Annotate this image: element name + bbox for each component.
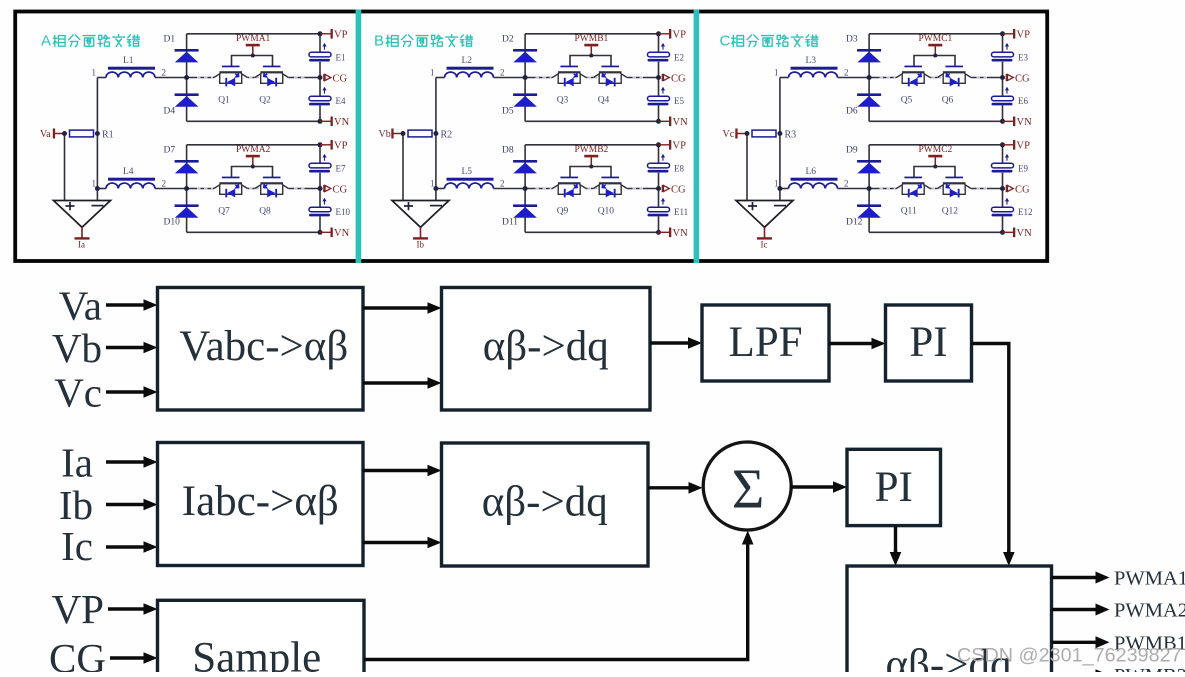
svg-text:1: 1	[92, 67, 97, 77]
svg-text:Ib: Ib	[417, 240, 425, 250]
wire: PI down to modulator	[894, 526, 897, 554]
transistor Q3 (IGBT with antiparallel diode)	[552, 66, 586, 106]
svg-text:Q10: Q10	[598, 207, 615, 217]
svg-text:Q1: Q1	[218, 96, 230, 106]
wire: node1 to inductor bottom leg	[436, 188, 445, 190]
junction VP rail	[318, 142, 323, 147]
resistor R1	[70, 129, 114, 140]
junction CG node	[1000, 186, 1005, 191]
wire: node1 to inductor top leg	[436, 77, 445, 79]
svg-text:CG: CG	[1015, 184, 1030, 195]
power port VP	[659, 140, 687, 151]
op-amp current sense amplifier (phase B)	[392, 201, 449, 228]
transistor Q4 (IGBT with antiparallel diode)	[593, 66, 627, 106]
junction at resistor left	[401, 131, 406, 136]
svg-text:Q9: Q9	[557, 207, 569, 217]
capacitor E6	[992, 87, 1029, 106]
block modulator alphabeta->dq (PWM generator)	[847, 566, 1052, 677]
PWM gate port PWMC2	[919, 145, 953, 167]
junction gate rail	[251, 54, 255, 58]
wire: VP arrow	[108, 607, 146, 610]
svg-text:CG: CG	[671, 184, 686, 195]
svg-text:2: 2	[844, 178, 849, 188]
svg-text:PWMB2: PWMB2	[575, 145, 609, 155]
wire: bottom rail to VN	[187, 120, 320, 122]
svg-text:PI: PI	[875, 464, 913, 511]
wire: gate rail	[570, 167, 611, 178]
svg-text:E5: E5	[674, 96, 684, 106]
wire: gate rail	[232, 167, 273, 178]
power port CG	[1006, 184, 1030, 195]
svg-text:PWMC2: PWMC2	[919, 145, 953, 155]
wire: Va arrow	[106, 303, 146, 306]
svg-text:PWMA1: PWMA1	[1114, 568, 1185, 590]
svg-text:Vc: Vc	[54, 369, 102, 415]
junction CG node	[1000, 75, 1005, 80]
power port CG	[323, 73, 347, 84]
svg-text:L1: L1	[123, 56, 134, 66]
capacitor E7	[309, 154, 346, 173]
junction node 2	[523, 75, 528, 80]
svg-text:D4: D4	[164, 107, 176, 117]
wire: bottom rail to VN	[187, 231, 320, 233]
wire: inductor output node 2 horizontal run	[838, 188, 1003, 190]
svg-text:E8: E8	[674, 163, 684, 173]
power port CG	[323, 184, 347, 195]
wire: faint dashed highlight segments	[880, 77, 988, 79]
PWM gate port PWMB2	[575, 145, 609, 167]
wire: node1 to inductor top leg	[780, 77, 789, 79]
transistor Q6 (IGBT with antiparallel diode)	[937, 66, 971, 106]
wire: inductor output node 2 horizontal run	[155, 77, 320, 79]
transistor Q8 (IGBT with antiparallel diode)	[255, 177, 289, 217]
wire: gate rail	[914, 167, 955, 178]
wire: inductor output node 2 horizontal run	[155, 188, 320, 190]
capacitor E11	[648, 198, 689, 217]
wire: diode column vertical	[524, 145, 526, 233]
wire: faint dashed highlight segments	[197, 188, 305, 190]
svg-text:2: 2	[500, 178, 505, 188]
wire: sense node vertical (L node 1 column)	[435, 78, 437, 201]
resistor R3	[752, 129, 796, 140]
capacitor E2	[648, 43, 685, 62]
svg-text:VP: VP	[1017, 29, 1031, 40]
junction node 2	[867, 186, 872, 191]
svg-text:VP: VP	[673, 29, 687, 40]
port Ic (current sense output)	[757, 227, 772, 249]
power port VN	[1003, 228, 1033, 239]
power port CG	[1006, 73, 1030, 84]
svg-text:E3: E3	[1018, 52, 1028, 62]
diode D7	[164, 146, 199, 174]
svg-text:Q6: Q6	[942, 96, 954, 106]
svg-text:R1: R1	[102, 129, 114, 140]
wire: faint dashed highlight segments	[197, 77, 305, 79]
svg-text:D6: D6	[846, 107, 858, 117]
wire: bottom rail to VN	[869, 231, 1002, 233]
PWM gate port PWMA1	[236, 34, 271, 56]
svg-text:A: A	[41, 33, 51, 50]
inductor L5	[445, 167, 494, 188]
power port CG	[662, 73, 686, 84]
block Iabc->alphabeta	[158, 443, 364, 566]
junction VN rail	[656, 230, 661, 235]
wire: top rail to VP	[187, 144, 320, 146]
inductor L1	[106, 56, 155, 77]
net label: C相分两路交错 (phase C two-way interleaved)	[720, 33, 818, 50]
svg-text:B: B	[374, 33, 384, 50]
inductor L6	[789, 167, 838, 188]
svg-text:R3: R3	[785, 129, 797, 140]
wire: PWMA1 output arrow	[1052, 576, 1099, 579]
wire: inductor output node 2 horizontal run	[494, 77, 659, 79]
wire: Ic arrow	[106, 545, 146, 548]
wire: right rail segments between capacitors	[1002, 34, 1004, 122]
net label: A相分两路交错 (phase A two-way interleaved)	[41, 33, 139, 50]
wire: Vdq to LPF arrow	[650, 341, 690, 344]
summing junction Σ	[703, 442, 791, 530]
wire: diode column vertical	[868, 34, 870, 122]
wire: Vbeta arrow	[363, 381, 430, 384]
svg-text:PWMB1: PWMB1	[575, 34, 609, 44]
junction VN rail	[1000, 119, 1005, 124]
svg-text:E2: E2	[674, 52, 684, 62]
junction VN rail	[318, 230, 323, 235]
svg-text:CG: CG	[1015, 73, 1030, 84]
capacitor E8	[648, 154, 685, 173]
diode D4	[164, 93, 199, 116]
svg-text:Σ: Σ	[732, 459, 765, 521]
wire: Vc node to op-amp plus input	[746, 134, 748, 201]
wire: right rail segments between capacitors	[658, 34, 660, 122]
resistor R2	[408, 129, 452, 140]
svg-text:VN: VN	[334, 228, 350, 239]
block LPF	[702, 305, 829, 381]
wire: Valpha arrow	[363, 306, 430, 309]
transistor Q11 (IGBT with antiparallel diode)	[896, 177, 930, 217]
svg-text:Ia: Ia	[61, 439, 93, 485]
svg-text:L2: L2	[462, 56, 473, 66]
svg-text:L5: L5	[462, 167, 473, 177]
power port VP	[320, 29, 348, 40]
svg-text:Q12: Q12	[942, 207, 959, 217]
transistor Q9 (IGBT with antiparallel diode)	[552, 177, 586, 217]
svg-text:VP: VP	[673, 140, 687, 151]
wire: right rail segments between capacitors	[658, 145, 660, 233]
junction VP rail	[656, 142, 661, 147]
svg-text:VN: VN	[1017, 228, 1033, 239]
wire: diode column vertical	[868, 145, 870, 233]
transistor Q2 (IGBT with antiparallel diode)	[255, 66, 289, 106]
svg-text:D8: D8	[502, 146, 514, 156]
svg-text:LPF: LPF	[728, 319, 802, 366]
wire: PWMB1 output arrow	[1052, 641, 1099, 644]
junction at inductor L6 node 1	[777, 186, 782, 191]
svg-text:2: 2	[162, 67, 167, 77]
svg-text:1: 1	[92, 178, 97, 188]
junction CG node	[318, 75, 323, 80]
capacitor E1	[309, 43, 346, 62]
svg-text:VN: VN	[673, 228, 689, 239]
svg-text:L4: L4	[123, 167, 134, 177]
diode D11	[502, 204, 537, 227]
svg-text:Va: Va	[59, 282, 102, 328]
junction node 2	[184, 186, 189, 191]
wire: faint dashed highlight segments	[536, 77, 644, 79]
capacitor E10	[309, 198, 350, 217]
svg-text:Ic: Ic	[761, 240, 768, 250]
svg-text:D2: D2	[502, 35, 514, 45]
svg-text:Q5: Q5	[901, 96, 913, 106]
power port CG	[662, 184, 686, 195]
svg-text:2: 2	[844, 67, 849, 77]
block PI (voltage loop)	[886, 305, 972, 381]
svg-text:Q7: Q7	[218, 207, 230, 217]
wire: top rail to VP	[187, 33, 320, 35]
svg-text:C: C	[720, 33, 731, 50]
svg-text:E10: E10	[336, 207, 351, 217]
svg-text:1: 1	[774, 67, 779, 77]
wire: Vb node to op-amp plus input	[402, 134, 404, 201]
transistor Q7 (IGBT with antiparallel diode)	[214, 177, 248, 217]
power port VP	[659, 29, 687, 40]
inductor L2	[445, 56, 494, 77]
wire: PWMA2 output arrow	[1052, 608, 1099, 611]
op-amp current sense amplifier (phase A)	[54, 201, 111, 228]
junction at inductor L5 node 1	[433, 186, 438, 191]
svg-text:D5: D5	[502, 107, 514, 117]
diode D10	[164, 204, 199, 227]
diode D6	[846, 93, 881, 116]
svg-text:Va: Va	[40, 129, 51, 140]
block PI (current loop)	[847, 449, 941, 525]
svg-text:CG: CG	[49, 635, 106, 672]
svg-text:D10: D10	[164, 218, 181, 228]
wire: CG arrow	[110, 656, 146, 659]
junction node 2	[523, 186, 528, 191]
block voltage alphabeta->dq	[442, 288, 651, 411]
power port VN	[320, 228, 350, 239]
wire: top rail to VP	[869, 33, 1002, 35]
svg-text:1: 1	[430, 178, 435, 188]
wire: Idq to summer arrow	[648, 486, 691, 489]
wire: inductor output node 2 horizontal run	[494, 188, 659, 190]
svg-text:D11: D11	[502, 218, 518, 228]
wire: sense node vertical (L node 1 column)	[779, 78, 781, 201]
svg-text:D7: D7	[164, 146, 176, 156]
net label: B相分两路交错 (phase B two-way interleaved)	[374, 33, 472, 50]
svg-text:Vb: Vb	[52, 325, 102, 371]
capacitor E4	[309, 87, 346, 106]
wire: bottom rail to VN	[869, 120, 1002, 122]
svg-text:Q4: Q4	[598, 96, 610, 106]
capacitor E12	[992, 198, 1033, 217]
svg-text:E9: E9	[1018, 163, 1028, 173]
svg-text:L6: L6	[806, 167, 817, 177]
svg-text:L3: L3	[806, 56, 817, 66]
wire: Ia arrow	[106, 460, 146, 463]
power port VN	[1003, 117, 1033, 128]
block Vabc->alphabeta	[158, 288, 364, 411]
wire: diode column vertical	[186, 145, 188, 233]
wire: Ibeta arrow	[363, 541, 430, 544]
wire: inductor output node 2 horizontal run	[838, 77, 1003, 79]
PWM gate port PWMB1	[575, 34, 609, 56]
svg-text:Ib: Ib	[59, 482, 93, 528]
op-amp current sense amplifier (phase C)	[736, 201, 793, 228]
wire: diode column vertical	[186, 34, 188, 122]
svg-text:VP: VP	[52, 586, 104, 632]
wire: gate rail	[914, 56, 955, 67]
wire: Vc arrow	[106, 390, 146, 393]
svg-text:R2: R2	[441, 129, 453, 140]
junction VP rail	[656, 31, 661, 36]
svg-text:CG: CG	[333, 184, 348, 195]
phase separator line B/C	[694, 10, 700, 263]
svg-text:E1: E1	[336, 52, 346, 62]
svg-text:CG: CG	[671, 73, 686, 84]
port Ia (current sense output)	[75, 227, 90, 249]
svg-text:PWMA1: PWMA1	[236, 34, 271, 44]
wire: gate rail	[570, 56, 611, 67]
junction gate rail	[589, 54, 593, 58]
capacitor E9	[992, 154, 1029, 173]
wire: right rail segments between capacitors	[319, 145, 321, 233]
junction at resistor right	[777, 131, 782, 136]
junction at resistor left	[745, 131, 750, 136]
junction gate rail	[589, 165, 593, 169]
svg-text:D1: D1	[164, 35, 176, 45]
junction gate rail	[933, 165, 937, 169]
junction gate rail	[251, 165, 255, 169]
junction CG node	[656, 186, 661, 191]
svg-text:E4: E4	[336, 96, 346, 106]
svg-text:VP: VP	[1017, 140, 1031, 151]
svg-text:E11: E11	[674, 207, 688, 217]
svg-text:2: 2	[500, 67, 505, 77]
schematic outer border frame	[15, 12, 1047, 262]
wire: faint dashed highlight segments	[880, 188, 988, 190]
wire: Va node to op-amp plus input	[64, 134, 66, 201]
svg-text:VP: VP	[334, 29, 348, 40]
junction at resistor right	[433, 131, 438, 136]
svg-text:D12: D12	[846, 218, 863, 228]
wire: PWMB2 output arrow	[1052, 674, 1099, 677]
wire: PI output right-then-down to modulator	[972, 344, 1009, 555]
wire: node1 to inductor top leg	[97, 77, 106, 79]
diode D9	[846, 146, 881, 174]
wire: Ialpha arrow	[363, 469, 430, 472]
svg-text:Iabc->αβ: Iabc->αβ	[182, 478, 339, 525]
block Sample	[158, 600, 365, 677]
wire: node1 to inductor bottom leg	[780, 188, 789, 190]
diode D5	[502, 93, 537, 116]
diode D3	[846, 35, 881, 63]
transistor Q1 (IGBT with antiparallel diode)	[214, 66, 248, 106]
svg-text:2: 2	[162, 178, 167, 188]
svg-text:CSDN @2301_76239827: CSDN @2301_76239827	[957, 645, 1182, 667]
svg-text:PWMC1: PWMC1	[919, 34, 953, 44]
svg-text:D3: D3	[846, 35, 858, 45]
svg-text:VN: VN	[673, 117, 689, 128]
power port VP	[1003, 29, 1031, 40]
transistor Q5 (IGBT with antiparallel diode)	[896, 66, 930, 106]
inductor L3	[789, 56, 838, 77]
svg-text:αβ->dq: αβ->dq	[483, 323, 609, 370]
wire: LPF to PI arrow	[829, 342, 874, 345]
svg-text:Vabc->αβ: Vabc->αβ	[179, 323, 348, 370]
svg-text:VP: VP	[334, 140, 348, 151]
svg-text:Vb: Vb	[379, 129, 391, 140]
power port VP	[320, 140, 348, 151]
junction CG node	[656, 75, 661, 80]
svg-text:PWMA2: PWMA2	[1114, 600, 1185, 622]
wire: bottom rail to VN	[525, 120, 658, 122]
svg-text:1: 1	[774, 178, 779, 188]
wire: gate rail	[232, 56, 273, 67]
junction VP rail	[1000, 142, 1005, 147]
power port VP	[1003, 140, 1031, 151]
svg-text:Sample: Sample	[192, 635, 321, 673]
port Va (phase voltage input)	[40, 129, 65, 141]
transistor Q12 (IGBT with antiparallel diode)	[937, 177, 971, 217]
wire: faint dashed highlight segments	[536, 188, 644, 190]
svg-text:αβ->dq: αβ->dq	[482, 479, 608, 526]
transistor Q10 (IGBT with antiparallel diode)	[593, 177, 627, 217]
junction at resistor left	[62, 131, 67, 136]
wire: Vb arrow	[106, 346, 146, 349]
junction VN rail	[656, 119, 661, 124]
junction VP rail	[318, 31, 323, 36]
junction at resistor right	[95, 131, 100, 136]
diode D2	[502, 35, 537, 63]
block current alphabeta->dq	[442, 443, 649, 566]
wire: node1 to inductor bottom leg	[97, 188, 106, 190]
svg-text:CG: CG	[333, 73, 348, 84]
svg-text:VN: VN	[334, 117, 350, 128]
wire: top rail to VP	[869, 144, 1002, 146]
wire: top rail to VP	[525, 144, 658, 146]
junction VN rail	[318, 119, 323, 124]
inductor L4	[106, 167, 155, 188]
svg-text:1: 1	[430, 67, 435, 77]
phase separator line A/B	[356, 10, 362, 263]
capacitor E3	[992, 43, 1029, 62]
junction at inductor L4 node 1	[95, 186, 100, 191]
wire: top rail to VP	[525, 33, 658, 35]
port Ib (current sense output)	[413, 227, 428, 249]
wire: bottom rail to VN	[525, 231, 658, 233]
junction CG node	[318, 186, 323, 191]
diode D1	[164, 35, 199, 63]
svg-text:Q8: Q8	[259, 207, 271, 217]
port Vc (phase voltage input)	[723, 129, 748, 141]
junction VN rail	[1000, 230, 1005, 235]
svg-text:PI: PI	[909, 319, 947, 366]
junction node 2	[184, 75, 189, 80]
wire: diode column vertical	[524, 34, 526, 122]
wire: Sample output to summer (up arrow)	[364, 536, 748, 660]
svg-text:VN: VN	[1017, 117, 1033, 128]
wire: summer to PI arrow	[790, 485, 835, 488]
junction gate rail	[933, 54, 937, 58]
junction VP rail	[1000, 31, 1005, 36]
PWM gate port PWMC1	[919, 34, 953, 56]
PWM gate port PWMA2	[236, 145, 271, 167]
diode D8	[502, 146, 537, 174]
svg-text:Ic: Ic	[61, 523, 93, 569]
wire: right rail segments between capacitors	[1002, 145, 1004, 233]
